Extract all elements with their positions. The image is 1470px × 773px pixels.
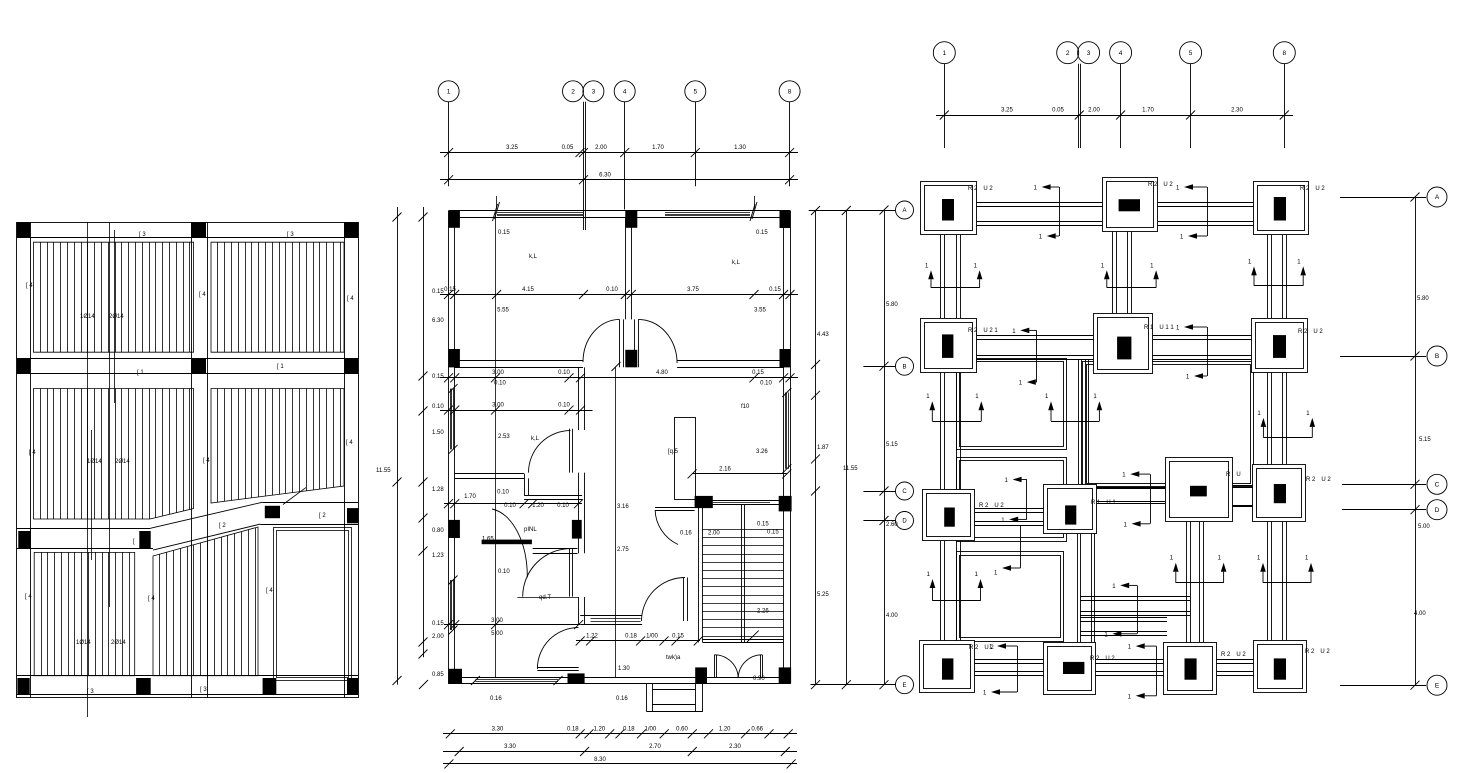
window right W-R1 — [782, 388, 791, 473]
svg-text:0.15: 0.15 — [672, 633, 684, 639]
grid bubble 4 (foundation) — [1110, 42, 1132, 64]
svg-text:0.10: 0.10 — [497, 489, 509, 495]
diagonal beam band — [151, 502, 263, 550]
svg-text:R U: R U — [1226, 472, 1241, 478]
text k,L — [529, 254, 538, 260]
column M-E5 — [695, 667, 707, 683]
svg-text:1.70: 1.70 — [464, 494, 476, 500]
svg-text:2Ø14: 2Ø14 — [111, 640, 126, 646]
svg-text:1.87: 1.87 — [817, 445, 829, 451]
footing B3 — [1094, 314, 1175, 374]
hatched slab panel S1 mid-right — [211, 389, 344, 504]
section mark rowB 3-6 — [1176, 324, 1208, 380]
svg-text:0.18: 0.18 — [567, 727, 579, 733]
svg-text:[q.5: [q.5 — [668, 449, 679, 455]
svg-text:0.15: 0.15 — [769, 287, 781, 293]
text qd.T — [539, 595, 551, 601]
beam col6 A-B — [1268, 235, 1287, 318]
grid line 4 foundation — [1120, 64, 1122, 148]
svg-text:0.10: 0.10 — [494, 381, 506, 387]
svg-text:1.22: 1.22 — [586, 633, 598, 639]
slab strip loop 3 — [1083, 362, 1254, 487]
grid bubble 8 — [779, 81, 800, 102]
svg-text:[ 4: [ 4 — [199, 292, 206, 298]
column M-A1 — [449, 211, 460, 228]
section mark rowCD 1-2 — [1001, 477, 1027, 524]
beam col6 B-C — [1268, 372, 1287, 465]
section mark col6 A-B — [1248, 259, 1306, 285]
svg-text:3.30: 3.30 — [504, 744, 516, 750]
column M-C5 — [695, 496, 713, 508]
column BM — [136, 678, 151, 694]
text 1.30 — [618, 666, 630, 672]
text pINL — [524, 527, 537, 533]
entry double door — [714, 655, 762, 678]
text 2.26 — [757, 609, 769, 615]
grid line 8 foundation — [1284, 64, 1286, 148]
svg-text:1Ø14: 1Ø14 — [80, 314, 95, 320]
column TM — [191, 222, 206, 237]
row bubble D left — [863, 512, 913, 530]
label [ — [133, 539, 135, 545]
svg-text:R 2 U 2: R 2 U 2 — [1300, 186, 1325, 192]
right dim line outer — [811, 206, 829, 689]
label [ 4 — [148, 596, 155, 602]
column TR — [344, 222, 358, 237]
text 0.15 — [767, 530, 779, 536]
svg-text:R 1 U 1 1: R 1 U 1 1 — [1144, 325, 1174, 331]
section mark col4 C-E — [1170, 556, 1227, 583]
svg-text:1.50: 1.50 — [432, 430, 444, 436]
column M-B1 — [449, 349, 460, 367]
label [ 2 — [219, 523, 226, 529]
stair opening panel — [274, 528, 352, 681]
svg-text:2.75: 2.75 — [617, 547, 629, 553]
svg-text:5.25: 5.25 — [817, 592, 829, 598]
svg-text:4.00: 4.00 — [1414, 611, 1426, 617]
door qdT top arc — [523, 549, 571, 597]
svg-text:5.15: 5.15 — [886, 442, 898, 448]
svg-text:0.10: 0.10 — [557, 503, 569, 509]
beam band row3 right — [260, 503, 358, 525]
rebar leader lines — [88, 222, 115, 717]
hatched slab panel S5 bottom-left — [34, 552, 135, 675]
svg-text:0.10: 0.10 — [504, 503, 516, 509]
svg-text:3.30: 3.30 — [492, 727, 504, 733]
beam line row1 — [17, 237, 359, 239]
column BM2 — [263, 678, 277, 694]
svg-text:1: 1 — [447, 89, 451, 96]
svg-text:3.75: 3.75 — [687, 287, 699, 293]
svg-text:5.80: 5.80 — [886, 302, 898, 308]
grid bubble 2 (foundation) — [1057, 42, 1079, 64]
section mark loop edge CD-E — [994, 525, 1021, 577]
svg-text:1Ø14: 1Ø14 — [87, 459, 102, 465]
svg-text:[ 1: [ 1 — [137, 370, 144, 376]
text 2.00 — [708, 531, 720, 537]
wall stub lower — [533, 549, 578, 554]
column MR — [344, 358, 358, 373]
section mark rowE 1-2 — [983, 643, 1018, 696]
column R3b — [139, 531, 150, 549]
stair divider — [742, 505, 745, 643]
window W1 top — [497, 213, 583, 216]
svg-text:0.66: 0.66 — [751, 727, 763, 733]
svg-text:4: 4 — [1119, 50, 1123, 57]
beam line row4 — [17, 676, 359, 695]
svg-text:R 1 U 1: R 1 U 1 — [1091, 500, 1116, 506]
svg-text:0.15: 0.15 — [444, 287, 456, 293]
svg-text:8: 8 — [1282, 50, 1286, 57]
wall interior vertical x578 — [579, 367, 585, 624]
svg-text:0.10: 0.10 — [606, 287, 618, 293]
beam line row2 — [17, 359, 359, 374]
door kL arc — [529, 431, 571, 473]
beam band lower mid A — [1080, 597, 1190, 616]
label [ 1 — [277, 364, 284, 370]
svg-text:3.55: 3.55 — [754, 308, 766, 314]
svg-text:0.05: 0.05 — [1052, 107, 1064, 113]
svg-text:2.26: 2.26 — [757, 609, 769, 615]
window left W-L1 — [449, 384, 458, 454]
row bubble A left — [809, 201, 914, 219]
section mark rowA 1-3 — [1034, 184, 1060, 240]
svg-text:k,L: k,L — [529, 254, 538, 260]
section mark CD2-C4 — [1122, 471, 1150, 528]
svg-text:[ 4: [ 4 — [347, 296, 354, 302]
svg-text:1.65: 1.65 — [482, 537, 494, 543]
label [ 1 — [137, 370, 144, 376]
svg-text:[ 4: [ 4 — [25, 594, 32, 600]
grid line 5 foundation — [1190, 64, 1192, 148]
beam col1 B-CD — [941, 372, 961, 489]
column R3d — [347, 508, 358, 523]
column R3a — [18, 531, 31, 548]
label 2Ø14 — [109, 314, 124, 320]
beam band lower mid B — [1080, 618, 1167, 636]
top dimension line foundation — [936, 107, 1293, 119]
wall corridor lower — [524, 496, 582, 500]
hatched slab panel S3 top-right — [211, 242, 344, 352]
svg-text:2.00: 2.00 — [708, 531, 720, 537]
svg-text:3.25: 3.25 — [1001, 107, 1013, 113]
svg-text:0.10: 0.10 — [558, 403, 570, 409]
interior extension line x615 — [615, 367, 617, 677]
svg-text:0.15: 0.15 — [767, 530, 779, 536]
column M-E8 — [779, 667, 791, 683]
svg-text:R 2 U 2: R 2 U 2 — [1306, 477, 1331, 483]
grid bubble 1 — [438, 81, 459, 102]
wall stub 1.65 — [482, 540, 532, 545]
row bubble D right — [1342, 500, 1447, 520]
dim line y377 — [440, 370, 798, 387]
column M-C1 — [449, 520, 460, 538]
right row dim line — [1411, 193, 1432, 690]
svg-text:twk)a: twk)a — [666, 655, 681, 661]
section mark central B-CD — [1045, 394, 1102, 421]
grid bubble 5 — [685, 81, 706, 102]
column M-E1 — [448, 669, 462, 684]
svg-text:C: C — [1435, 482, 1440, 489]
section mark lower mid — [1104, 583, 1137, 639]
svg-text:5.00: 5.00 — [491, 631, 503, 637]
svg-text:3.25: 3.25 — [506, 145, 518, 151]
svg-text:[ 4: [ 4 — [26, 283, 33, 289]
door qdT bottom leaf — [537, 668, 578, 671]
svg-text:A: A — [902, 208, 906, 214]
wall row2 right segment — [677, 361, 784, 368]
window W2 top — [665, 213, 750, 216]
label 2Ø14 — [111, 640, 126, 646]
text 2.53 — [498, 434, 510, 440]
bottom wall — [449, 678, 791, 684]
section mark col3 A-B — [1101, 263, 1159, 287]
beam line left column inner — [30, 222, 32, 697]
svg-text:B: B — [902, 364, 906, 370]
dim line 2.16 — [688, 467, 792, 479]
text 0.16 — [616, 696, 628, 702]
svg-text:[ 3: [ 3 — [87, 689, 94, 695]
column M-A8 — [780, 211, 791, 229]
door twk arc — [642, 578, 686, 622]
left row dim line — [880, 206, 899, 690]
column M-B4 — [625, 350, 637, 368]
svg-text:B: B — [1435, 353, 1439, 360]
label [ 3 — [139, 232, 146, 238]
svg-text:3.16: 3.16 — [617, 504, 629, 510]
left dim line inner — [419, 207, 445, 689]
text [q.5 — [668, 449, 679, 455]
svg-text:1Ø14: 1Ø14 — [76, 640, 91, 646]
top dimension line B — [440, 173, 798, 185]
svg-text:6.30: 6.30 — [432, 318, 444, 324]
svg-text:0.18: 0.18 — [625, 633, 637, 639]
svg-text:D: D — [1435, 507, 1440, 514]
footing C6 — [1253, 465, 1332, 522]
svg-text:1.70: 1.70 — [1142, 107, 1154, 113]
wall corridor upper — [455, 474, 524, 479]
double door leaves row2 — [620, 319, 639, 367]
svg-text:4.15: 4.15 — [522, 287, 534, 293]
svg-text:0.15: 0.15 — [752, 370, 764, 376]
svg-text:E: E — [902, 683, 906, 689]
svg-text:5.80: 5.80 — [1417, 296, 1429, 302]
svg-text:2.16: 2.16 — [719, 467, 731, 473]
beam row CD 1-2 — [975, 509, 1044, 526]
svg-text:2.00: 2.00 — [595, 145, 607, 151]
door qdT top leaf — [570, 549, 573, 597]
footing E4 — [1164, 643, 1247, 695]
section mark col6 B-C — [1257, 411, 1315, 438]
svg-text:5.00: 5.00 — [1418, 524, 1430, 530]
svg-text:5.15: 5.15 — [1419, 437, 1431, 443]
text 0.16 — [490, 696, 502, 702]
row bubble B left — [863, 357, 913, 375]
svg-text:2Ø14: 2Ø14 — [115, 459, 130, 465]
svg-text:[ 4: [ 4 — [203, 458, 210, 464]
label [ 4 — [26, 283, 33, 289]
row bubble B right — [1340, 346, 1447, 366]
beam CD2-C4 — [1096, 488, 1165, 504]
svg-text:pINL: pINL — [524, 527, 537, 533]
footing B1 — [921, 319, 999, 373]
svg-text:1.30: 1.30 — [734, 145, 746, 151]
footing E2 — [1044, 643, 1116, 695]
beam col3 A-B — [1113, 231, 1132, 313]
grid line 1 foundation — [944, 64, 946, 148]
label [ 4 — [347, 296, 354, 302]
slab strip loop 1 — [957, 359, 1067, 450]
column BL — [17, 678, 29, 694]
svg-text:1/00: 1/00 — [646, 633, 658, 639]
text 0.15 — [757, 522, 769, 528]
svg-text:0.16: 0.16 — [616, 696, 628, 702]
svg-text:3: 3 — [1087, 50, 1091, 57]
svg-text:D: D — [902, 519, 907, 525]
section mark rowA 3-6 — [1176, 184, 1208, 240]
column TL — [17, 222, 30, 237]
wall row2 left segment — [455, 361, 621, 372]
svg-text:3.00: 3.00 — [492, 370, 504, 376]
stair left wall — [699, 508, 703, 642]
svg-text:11.55: 11.55 — [376, 468, 391, 474]
wall corridor jog — [525, 474, 529, 495]
interior extension line x494 — [495, 212, 497, 678]
window left W-L2 — [449, 576, 458, 635]
svg-text:[ 4: [ 4 — [266, 588, 273, 594]
grid bubble 1 (foundation) — [933, 42, 955, 64]
svg-text:3: 3 — [592, 89, 596, 96]
svg-text:R 2 U 2: R 2 U 2 — [1148, 182, 1173, 188]
svg-text:[ 4: [ 4 — [148, 596, 155, 602]
svg-text:6.30: 6.30 — [599, 173, 611, 179]
svg-text:2.30: 2.30 — [729, 744, 741, 750]
beam line right column inner — [344, 222, 346, 697]
wall grid4 vertical — [626, 217, 632, 319]
grid bubble 5 (foundation) — [1180, 42, 1202, 64]
bottom dim line A — [443, 727, 797, 739]
footing A1 — [921, 182, 994, 235]
footing C4 — [1166, 458, 1241, 522]
svg-text:2.70: 2.70 — [649, 744, 661, 750]
label 1Ø14 — [76, 640, 91, 646]
svg-text:0.85: 0.85 — [432, 672, 444, 678]
column ML — [17, 358, 30, 373]
window bottom W-B1 — [471, 676, 563, 685]
section mark col1 B-CD — [926, 394, 984, 421]
slab strip loop 2b — [957, 552, 1064, 642]
label [ 4 — [29, 450, 36, 456]
stair cut mark — [747, 631, 759, 642]
svg-text:A: A — [1435, 194, 1440, 201]
svg-text:2.53: 2.53 — [498, 434, 510, 440]
section mark col1 CD-E — [927, 572, 984, 601]
svg-text:4.80: 4.80 — [656, 370, 668, 376]
svg-text:4.43: 4.43 — [817, 332, 829, 338]
footing A3 — [1103, 178, 1174, 232]
beam col1 A-B — [941, 235, 961, 318]
beam C4-C6 — [1232, 486, 1252, 507]
beam row E 4-6 — [1216, 660, 1254, 676]
svg-text:[ 4: [ 4 — [346, 440, 353, 446]
column M-C3 — [572, 520, 582, 539]
svg-text:[ 1: [ 1 — [277, 364, 284, 370]
right wall — [784, 211, 791, 684]
door kL leaf — [570, 429, 573, 473]
svg-text:1: 1 — [942, 50, 946, 57]
svg-text:2: 2 — [1066, 50, 1070, 57]
svg-text:0.10: 0.10 — [558, 370, 570, 376]
label 1Ø14 — [87, 459, 102, 465]
grid bubble 3 (foundation) — [1078, 42, 1100, 64]
door arc row2 right — [638, 319, 677, 363]
beam col2 CD-E — [1078, 534, 1095, 643]
row bubble E left — [811, 676, 914, 694]
svg-text:1.23: 1.23 — [432, 553, 444, 559]
stair steps — [703, 530, 784, 637]
svg-text:[ 3: [ 3 — [200, 687, 207, 693]
svg-text:0.15: 0.15 — [432, 621, 444, 627]
svg-text:0.05: 0.05 — [562, 145, 574, 151]
svg-text:5: 5 — [1189, 50, 1193, 57]
svg-text:f10: f10 — [741, 404, 750, 410]
grid line 1 — [448, 102, 450, 186]
footing A6 — [1254, 182, 1326, 235]
text 0.15 — [498, 230, 510, 236]
hatched slab panel S1 mid-left — [34, 389, 194, 520]
column BR — [347, 678, 358, 694]
label [ 4 — [266, 588, 273, 594]
svg-text:C: C — [902, 489, 907, 495]
row bubble C right — [1342, 474, 1447, 494]
beam row E 2-4 — [1095, 660, 1164, 676]
label [ 3 — [287, 232, 294, 238]
svg-text:R 2 U 2 1: R 2 U 2 1 — [968, 328, 998, 334]
footing CD1 — [923, 490, 1005, 541]
slab strip loop 2a — [957, 458, 1067, 542]
beam row B 3-6 — [1153, 336, 1252, 360]
beam row A 1-3 — [976, 203, 1103, 226]
column M-A4 — [625, 211, 637, 228]
leader to stair opening — [283, 488, 306, 505]
svg-text:1.20: 1.20 — [532, 503, 544, 509]
svg-text:0.10: 0.10 — [432, 404, 444, 410]
column MM — [191, 358, 206, 373]
text 2.75 — [617, 547, 629, 553]
svg-text:2.00: 2.00 — [432, 634, 444, 640]
text 3.26 — [756, 449, 768, 455]
svg-text:3.00: 3.00 — [491, 618, 503, 624]
text k,L — [732, 260, 741, 266]
column M-B8 — [780, 349, 791, 367]
bottom dim line B — [443, 744, 797, 756]
right dim line inner — [842, 206, 858, 689]
column M-C8 — [779, 496, 792, 512]
svg-text:3.00: 3.00 — [492, 403, 504, 409]
text 0.10 — [498, 569, 510, 575]
svg-text:[ 2: [ 2 — [319, 513, 326, 519]
section mark rowB 1-3 — [1012, 328, 1036, 387]
footing E1 — [920, 641, 995, 693]
left wall — [449, 211, 455, 684]
svg-text:2.00: 2.00 — [1088, 107, 1100, 113]
label [ 3 — [87, 689, 94, 695]
svg-text:[ 3: [ 3 — [287, 232, 294, 238]
wall tick marks top — [493, 196, 758, 221]
label [ 4 — [203, 458, 210, 464]
svg-text:0.10: 0.10 — [498, 569, 510, 575]
svg-text:[ 2: [ 2 — [219, 523, 226, 529]
